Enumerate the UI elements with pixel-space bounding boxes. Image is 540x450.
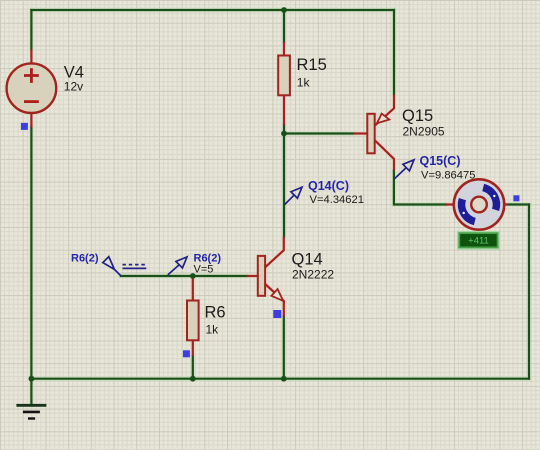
svg-text:+411: +411 — [468, 236, 489, 247]
svg-text:V=9.86475: V=9.86475 — [421, 170, 475, 182]
junction node Q15 base / R15 bottom — [281, 131, 287, 137]
wire motor right — [508, 203, 529, 205]
battery V4 — [7, 50, 57, 128]
wire left vertical — [30, 10, 32, 379]
wire Q15 base — [284, 132, 354, 134]
svg-text:1k: 1k — [297, 76, 311, 90]
wire top rail — [31, 9, 394, 11]
svg-text:2N2222: 2N2222 — [292, 268, 334, 282]
handle motor — [513, 195, 519, 201]
junction node ground rail — [29, 376, 35, 382]
svg-text:Q14: Q14 — [292, 251, 323, 269]
wire Q14 base — [121, 275, 247, 277]
svg-text:R6(2): R6(2) — [71, 253, 99, 265]
wire Q15 emitter top — [393, 10, 395, 95]
resistor R6 — [187, 279, 199, 357]
transistor Q15 2N2905 — [354, 95, 395, 171]
svg-text:12v: 12v — [64, 80, 83, 94]
wire R6 bottom — [192, 356, 194, 379]
junction node Q14 emitter rail — [281, 376, 287, 382]
svg-text:Q15: Q15 — [402, 107, 433, 125]
svg-text:1k: 1k — [206, 323, 220, 337]
display +411 — [458, 232, 499, 249]
motor — [446, 179, 508, 229]
handle V4 — [21, 123, 28, 130]
handle R6 — [183, 350, 190, 357]
wire bottom rail — [31, 378, 529, 380]
svg-text:R15: R15 — [297, 56, 327, 74]
probe Q15(C) — [395, 160, 414, 179]
wire middle vertical upper — [283, 10, 285, 42]
transistor Q14 2N2222 — [247, 237, 284, 317]
svg-text:Q15(C): Q15(C) — [420, 154, 461, 168]
wire right vertical — [528, 205, 530, 379]
svg-text:R6: R6 — [205, 304, 226, 322]
svg-text:2N2905: 2N2905 — [403, 125, 445, 139]
resistor R15 — [278, 42, 290, 125]
generator R6(2) left — [103, 257, 147, 276]
probe R6(2) right — [168, 257, 187, 275]
handle Q14 — [273, 310, 281, 318]
wire motor left to Q15 collector — [394, 171, 446, 205]
probe Q14(C) — [285, 187, 302, 204]
junction node R6 top — [190, 273, 196, 279]
ground — [18, 379, 45, 419]
wire middle vertical R15-to-Q14 — [283, 125, 285, 237]
junction node R6 bottom rail — [190, 376, 196, 382]
svg-text:V=4.34621: V=4.34621 — [310, 194, 364, 206]
svg-text:Q14(C): Q14(C) — [308, 179, 349, 193]
wire Q14 emitter bottom — [283, 317, 285, 379]
junction node R15 top — [281, 7, 287, 13]
svg-text:V=5: V=5 — [194, 264, 214, 276]
